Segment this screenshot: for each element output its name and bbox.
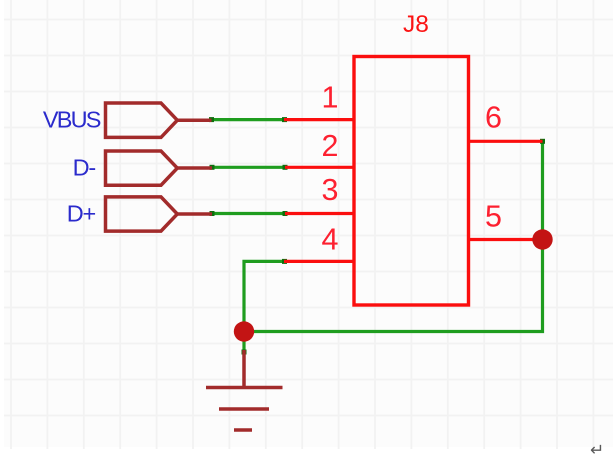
wire endpoint nubs (dark green)	[209, 117, 545, 354]
junction dot at pin 5	[532, 229, 552, 249]
svg-text:6: 6	[485, 101, 502, 135]
svg-text:5: 5	[485, 200, 502, 234]
net flag D-	[106, 151, 213, 185]
pin 2	[285, 166, 354, 169]
pin 1	[284, 118, 354, 121]
wire pin4 to ground node (green)	[244, 261, 285, 352]
wire net VBUS (green)	[212, 118, 285, 121]
wire ground node to pin6/pin5 net (green)	[244, 141, 543, 331]
net flag VBUS	[106, 103, 212, 137]
pin 4	[284, 260, 354, 263]
pin 3	[285, 212, 354, 215]
svg-text:4: 4	[322, 223, 339, 257]
junction dot at ground node	[234, 321, 254, 341]
pin 5	[469, 238, 543, 241]
svg-text:2: 2	[322, 129, 339, 163]
svg-text:D+: D+	[67, 201, 96, 227]
svg-text:J8: J8	[403, 11, 429, 38]
ground	[206, 350, 283, 430]
connector J8 body	[354, 57, 469, 306]
svg-text:D-: D-	[73, 155, 96, 181]
svg-text:VBUS: VBUS	[43, 107, 101, 133]
svg-text:↵: ↵	[590, 441, 604, 460]
pin 6	[469, 140, 543, 143]
wire net D- (green)	[212, 166, 285, 169]
svg-text:1: 1	[322, 81, 339, 115]
svg-text:3: 3	[322, 173, 339, 207]
wire net D+ (green)	[212, 212, 285, 215]
net flag D+	[106, 197, 213, 231]
